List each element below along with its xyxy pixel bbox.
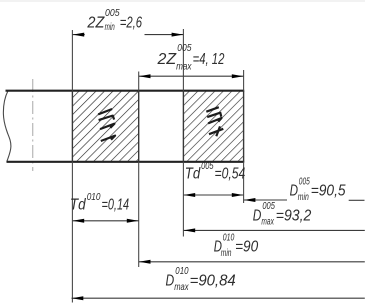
svg-text:010: 010: [223, 233, 235, 244]
centerline: [32, 79, 34, 171]
dimension Td005 line: [183, 194, 243, 196]
dimension D010min line: [139, 261, 365, 263]
scan edge tint: [0, 0, 365, 2]
extension line x=72 bottom: [71, 162, 73, 303]
dimension D005max line: [183, 229, 364, 231]
svg-text:010: 010: [175, 266, 189, 277]
extension line x=183 top: [182, 29, 184, 91]
svg-text:005: 005: [105, 8, 120, 19]
label IT14: [206, 107, 223, 136]
svg-text:=90,5: =90,5: [311, 183, 346, 200]
extension line x=139 top: [138, 72, 140, 91]
svg-text:max: max: [174, 282, 189, 293]
extension line x=139 bottom: [138, 162, 140, 267]
svg-text:010: 010: [87, 192, 101, 203]
dimension D010max line: [72, 297, 365, 299]
svg-text:005: 005: [177, 43, 192, 54]
dimension 2Zmax line: [139, 75, 244, 77]
extension line x=183 bottom: [182, 162, 184, 237]
svg-text:005: 005: [262, 201, 275, 212]
svg-text:Td: Td: [185, 165, 202, 182]
svg-text:=0,14: =0,14: [102, 196, 130, 213]
label Td005=0,54: [185, 161, 246, 182]
svg-text:D: D: [290, 183, 298, 200]
svg-text:=93,2: =93,2: [276, 207, 312, 224]
band bottom edge: [7, 161, 245, 163]
svg-text:min: min: [298, 192, 309, 203]
dimension 2Zmin line: [72, 34, 84, 36]
svg-text:005: 005: [201, 161, 214, 172]
hatch region 1 (allowance zone IT11): [72, 91, 138, 162]
label 2Zmin=2,6: [86, 8, 142, 33]
svg-text:005: 005: [299, 177, 310, 188]
svg-text:2Z: 2Z: [156, 51, 176, 68]
svg-text:D: D: [253, 207, 262, 224]
svg-text:=90,84: =90,84: [190, 272, 236, 289]
extension line x=244 top: [243, 70, 245, 91]
hatch region 2 (allowance zone IT14): [183, 91, 243, 162]
svg-text:max: max: [176, 62, 192, 73]
band top edge: [6, 90, 245, 92]
label D010max=90,84: [166, 266, 237, 293]
svg-text:D: D: [166, 272, 175, 289]
svg-text:Td: Td: [70, 196, 87, 213]
extension line x=72 top: [71, 30, 73, 91]
label IT11: [98, 109, 115, 141]
svg-text:=4, 12: =4, 12: [193, 51, 225, 68]
extension line x=244 bottom: [243, 162, 245, 203]
svg-text:max: max: [261, 217, 274, 228]
label D010min=90: [214, 233, 259, 259]
svg-text:min: min: [221, 248, 232, 259]
svg-text:min: min: [105, 22, 115, 33]
label Td010=0,14: [70, 192, 129, 213]
svg-text:=2,6: =2,6: [120, 14, 143, 31]
dimension Td010 line: [72, 220, 138, 222]
svg-text:=0,54: =0,54: [215, 165, 246, 182]
svg-text:=90: =90: [235, 239, 258, 256]
label 2Zmax=4,12: [156, 43, 224, 73]
svg-text:2Z: 2Z: [86, 14, 104, 31]
label D005max=93,2: [253, 201, 312, 228]
wire wavy break line left: [3, 91, 11, 162]
label D005min=90,5: [290, 177, 346, 203]
dimension D005min line: [244, 199, 287, 201]
